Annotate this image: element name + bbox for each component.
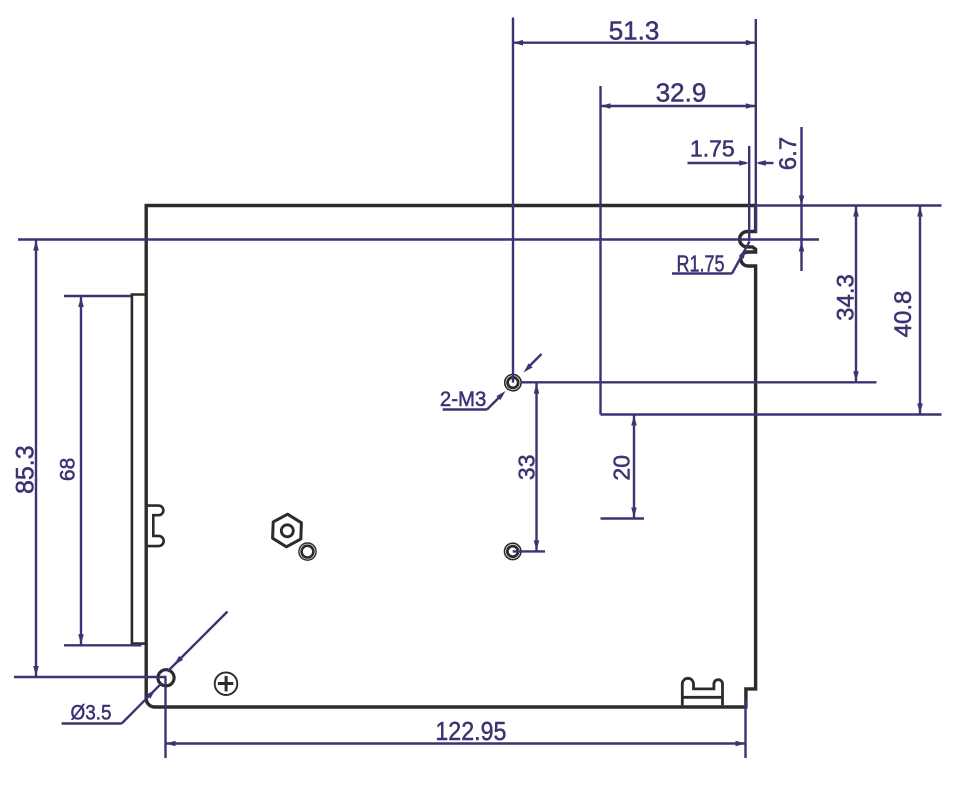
svg-text:Ø3.5: Ø3.5 <box>71 702 112 725</box>
svg-text:6.7: 6.7 <box>775 137 802 170</box>
svg-text:68: 68 <box>57 458 80 481</box>
svg-text:33: 33 <box>514 455 540 481</box>
svg-text:34.3: 34.3 <box>832 274 859 321</box>
svg-text:122.95: 122.95 <box>435 716 506 746</box>
svg-text:51.3: 51.3 <box>609 16 660 46</box>
svg-text:85.3: 85.3 <box>12 445 40 494</box>
svg-text:20: 20 <box>609 455 635 481</box>
svg-text:1.75: 1.75 <box>690 136 735 162</box>
svg-text:32.9: 32.9 <box>656 77 707 107</box>
svg-text:2-M3: 2-M3 <box>440 388 487 411</box>
svg-text:R1.75: R1.75 <box>677 251 725 277</box>
svg-text:40.8: 40.8 <box>890 291 917 338</box>
